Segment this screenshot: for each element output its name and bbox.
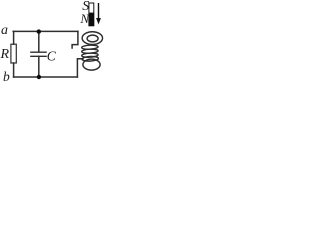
wire top (node a to coil): [13, 30, 78, 32]
junction dot bottom: [37, 75, 41, 79]
svg-text:C: C: [47, 49, 57, 64]
magnet bar lower N pole (solid black): [89, 13, 95, 26]
resistor R: [11, 44, 16, 63]
junction dot top: [37, 29, 41, 33]
svg-text:b: b: [3, 69, 10, 84]
wire left upper: [13, 31, 15, 44]
inductor coil N: top opening (outer ring): [82, 32, 103, 70]
wire bottom (node b to coil): [14, 76, 78, 78]
wire left lower: [13, 63, 15, 77]
wire coil exit (bottom right corner up to coil): [77, 59, 83, 77]
inductor coil N: turn 1: [82, 45, 99, 50]
arrow showing magnet moving down: [96, 3, 101, 24]
inductor coil N: top opening inner ring: [87, 35, 98, 42]
inductor coil N: bottom opening: [83, 59, 100, 70]
capacitor C top plate: [31, 51, 46, 53]
inductor coil N: turn 4: [82, 56, 99, 61]
magnet bar outline (upper S pole, white): [89, 3, 94, 26]
wire capacitor branch upper: [38, 31, 40, 52]
svg-text:N: N: [79, 11, 90, 26]
inductor coil N: turn 2: [82, 49, 99, 54]
svg-text:R: R: [0, 47, 10, 62]
capacitor C bottom plate: [31, 55, 46, 57]
wire coil entry (top right corner down with hook): [72, 31, 78, 48]
inductor coil N: turn 3: [82, 53, 99, 58]
svg-text:a: a: [1, 23, 8, 38]
wire capacitor branch lower: [38, 56, 40, 77]
